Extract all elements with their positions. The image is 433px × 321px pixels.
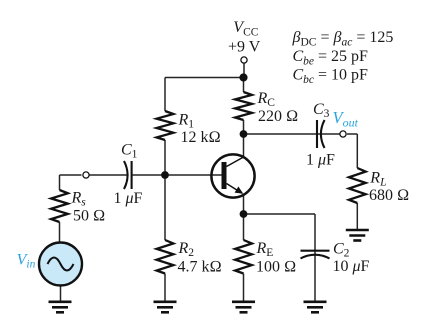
svg-text:Vout: Vout [333,108,359,129]
svg-text:220 Ω: 220 Ω [258,108,298,125]
svg-text:4.7 kΩ: 4.7 kΩ [178,259,222,276]
svg-text:12 kΩ: 12 kΩ [181,129,221,146]
svg-text:RE: RE [256,240,274,259]
svg-text:680 Ω: 680 Ω [369,187,409,204]
svg-text:Vin: Vin [17,251,36,270]
svg-text:R1: R1 [178,112,195,131]
svg-text:Cbe = 25 pF: Cbe = 25 pF [293,48,369,68]
svg-text:Cbc = 10 pF: Cbc = 10 pF [293,66,369,86]
svg-text:Rs: Rs [71,189,87,208]
svg-text:+9 V: +9 V [228,39,261,56]
svg-text:C1: C1 [121,141,138,160]
svg-text:100 Ω: 100 Ω [256,259,296,276]
svg-text:C2: C2 [333,241,350,260]
svg-text:10 μF: 10 μF [333,258,370,275]
svg-text:VCC: VCC [233,19,258,39]
svg-text:RL: RL [369,169,386,188]
svg-text:RC: RC [257,90,276,109]
svg-text:C3: C3 [313,101,330,120]
svg-text:1 μF: 1 μF [306,151,335,168]
svg-text:1 μF: 1 μF [114,190,143,207]
svg-text:βDC = βac = 125: βDC = βac = 125 [292,29,394,49]
svg-text:50 Ω: 50 Ω [73,208,105,225]
svg-text:R2: R2 [178,240,195,259]
